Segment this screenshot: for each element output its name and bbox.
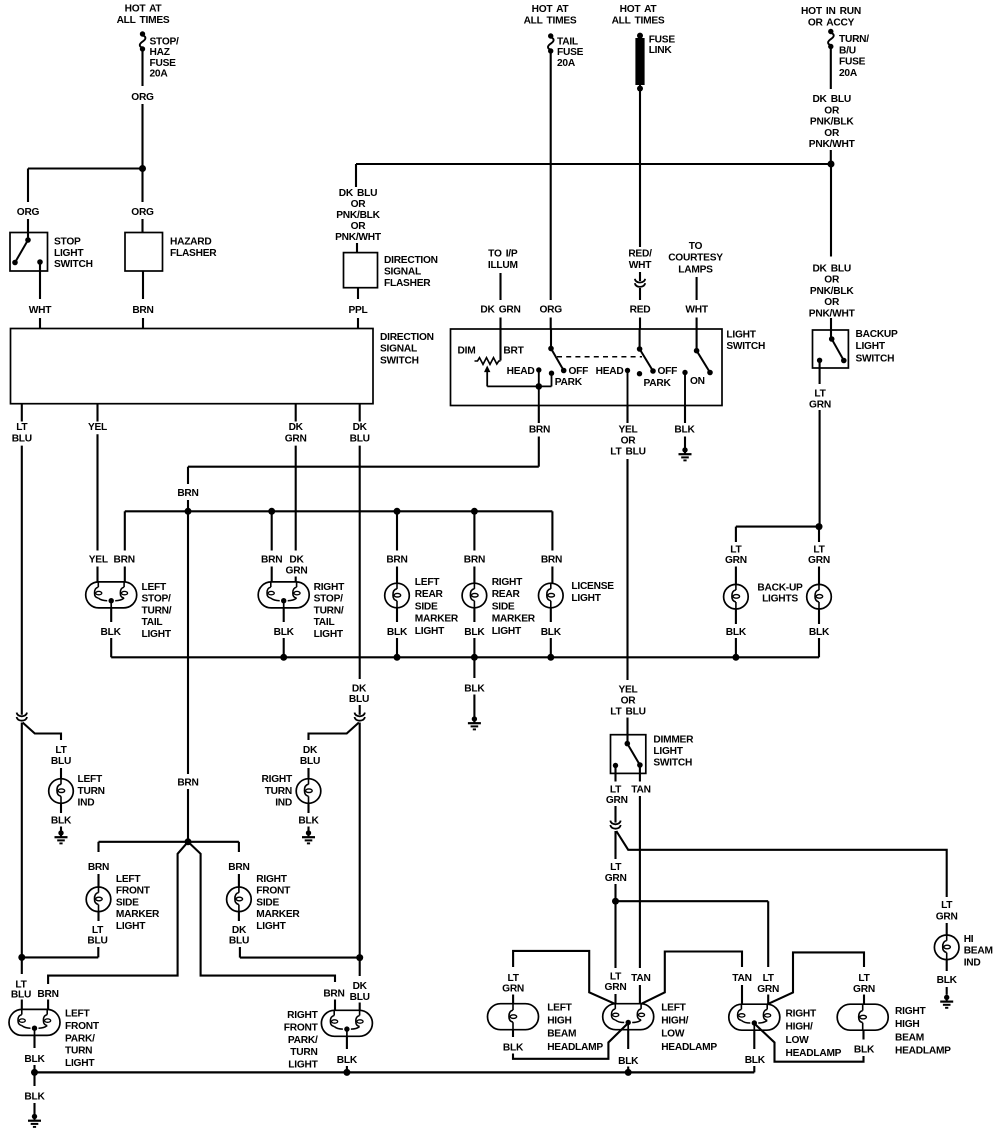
- svg-text:LIGHT: LIGHT: [256, 921, 286, 932]
- svg-text:BLU: BLU: [300, 756, 320, 767]
- svg-text:GRN: GRN: [606, 795, 628, 806]
- svg-text:LOW: LOW: [786, 1035, 810, 1046]
- svg-text:TAIL: TAIL: [314, 617, 335, 628]
- svg-text:HEADLAMP: HEADLAMP: [547, 1042, 603, 1053]
- svg-text:LT BLU: LT BLU: [610, 707, 645, 718]
- svg-text:BEAM: BEAM: [964, 946, 993, 957]
- svg-text:REAR: REAR: [415, 589, 444, 600]
- svg-text:TO: TO: [689, 241, 703, 252]
- svg-text:IND: IND: [78, 798, 95, 809]
- svg-text:LT: LT: [610, 972, 622, 983]
- svg-text:BRN: BRN: [228, 862, 249, 873]
- svg-text:ORG: ORG: [131, 92, 154, 103]
- svg-text:MARKER: MARKER: [256, 909, 300, 920]
- svg-text:BRN: BRN: [177, 778, 198, 789]
- svg-text:BLK: BLK: [937, 975, 958, 986]
- svg-text:BLU: BLU: [349, 694, 369, 705]
- svg-text:STOP/: STOP/: [142, 594, 172, 605]
- svg-text:BLK: BLK: [24, 1054, 45, 1065]
- svg-text:LIGHT: LIGHT: [116, 921, 146, 932]
- svg-text:LEFT: LEFT: [661, 1002, 686, 1013]
- svg-text:BLK: BLK: [387, 627, 408, 638]
- svg-text:OR: OR: [621, 696, 637, 707]
- svg-text:GRN: GRN: [502, 984, 524, 995]
- svg-text:DK: DK: [289, 422, 304, 433]
- svg-text:HEADLAMP: HEADLAMP: [786, 1048, 842, 1059]
- svg-text:TURN: TURN: [265, 786, 292, 797]
- svg-text:LOW: LOW: [661, 1029, 685, 1040]
- svg-text:LIGHT: LIGHT: [54, 248, 84, 259]
- svg-text:GRN: GRN: [853, 984, 875, 995]
- svg-text:FRONT: FRONT: [65, 1021, 100, 1032]
- svg-text:LT: LT: [16, 422, 28, 433]
- svg-text:PNK/BLK: PNK/BLK: [810, 117, 854, 128]
- svg-text:STOP/: STOP/: [314, 594, 344, 605]
- svg-text:GRN: GRN: [605, 982, 627, 993]
- svg-text:LIGHT: LIGHT: [856, 341, 886, 352]
- svg-text:OR: OR: [824, 297, 840, 308]
- svg-text:PARK/: PARK/: [65, 1033, 95, 1044]
- svg-text:TURN: TURN: [78, 786, 105, 797]
- svg-text:OR: OR: [824, 105, 840, 116]
- svg-text:LT: LT: [941, 900, 953, 911]
- svg-text:RIGHT: RIGHT: [314, 582, 345, 593]
- svg-text:LEFT: LEFT: [78, 774, 103, 785]
- svg-text:BLK: BLK: [809, 627, 830, 638]
- svg-text:LEFT: LEFT: [116, 874, 141, 885]
- svg-text:HEAD: HEAD: [596, 366, 624, 377]
- svg-text:ALL TIMES: ALL TIMES: [612, 16, 665, 27]
- svg-text:HEADLAMP: HEADLAMP: [895, 1046, 951, 1057]
- svg-text:BLK: BLK: [541, 627, 562, 638]
- svg-text:TAN: TAN: [732, 973, 751, 984]
- svg-text:20A: 20A: [839, 68, 858, 79]
- svg-text:LT: LT: [55, 745, 67, 756]
- svg-text:LAMPS: LAMPS: [678, 264, 713, 275]
- svg-text:DK BLU: DK BLU: [339, 188, 377, 199]
- svg-text:ILLUM: ILLUM: [488, 260, 518, 271]
- svg-text:GRN: GRN: [725, 555, 747, 566]
- svg-text:BRN: BRN: [323, 989, 344, 1000]
- svg-text:PARK/: PARK/: [288, 1035, 318, 1046]
- svg-text:YEL: YEL: [89, 555, 108, 566]
- svg-text:OR: OR: [621, 436, 637, 447]
- svg-text:B/U: B/U: [839, 45, 856, 56]
- svg-text:LT: LT: [813, 545, 825, 556]
- svg-text:GRN: GRN: [808, 555, 830, 566]
- svg-text:FRONT: FRONT: [284, 1022, 319, 1033]
- svg-text:LIGHT: LIGHT: [726, 330, 756, 341]
- svg-text:BLK: BLK: [674, 425, 695, 436]
- svg-text:DK: DK: [353, 981, 368, 992]
- svg-text:BLK: BLK: [298, 815, 319, 826]
- svg-text:FUSE: FUSE: [557, 47, 584, 58]
- svg-text:BLK: BLK: [464, 627, 485, 638]
- svg-text:SWITCH: SWITCH: [856, 353, 895, 364]
- svg-text:BRN: BRN: [541, 555, 562, 566]
- svg-text:LT: LT: [814, 389, 826, 400]
- svg-text:DK: DK: [352, 683, 367, 694]
- svg-text:BLU: BLU: [229, 936, 249, 947]
- svg-text:BLU: BLU: [350, 992, 370, 1003]
- svg-text:PARK: PARK: [644, 378, 672, 389]
- svg-text:FUSE: FUSE: [150, 58, 177, 69]
- svg-text:BEAM: BEAM: [895, 1032, 924, 1043]
- svg-text:BRN: BRN: [114, 555, 135, 566]
- svg-text:FRONT: FRONT: [116, 886, 151, 897]
- svg-text:LIGHT: LIGHT: [492, 626, 522, 637]
- svg-text:ORG: ORG: [131, 207, 154, 218]
- svg-text:LIGHT: LIGHT: [142, 629, 172, 640]
- svg-text:BLK: BLK: [745, 1055, 766, 1066]
- svg-text:GRN: GRN: [605, 873, 627, 884]
- svg-text:BRN: BRN: [386, 555, 407, 566]
- svg-text:DK GRN: DK GRN: [480, 305, 520, 316]
- svg-text:HI: HI: [964, 934, 974, 945]
- svg-text:DIRECTION: DIRECTION: [384, 255, 438, 266]
- svg-text:OR: OR: [351, 221, 367, 232]
- svg-text:BLK: BLK: [51, 815, 72, 826]
- svg-text:LEFT: LEFT: [547, 1002, 572, 1013]
- svg-text:FRONT: FRONT: [256, 886, 291, 897]
- svg-text:BACK-UP: BACK-UP: [757, 583, 803, 594]
- svg-text:ALL TIMES: ALL TIMES: [524, 16, 577, 27]
- svg-text:DIM: DIM: [458, 346, 476, 357]
- svg-text:BRN: BRN: [177, 488, 198, 499]
- svg-text:BLU: BLU: [87, 936, 107, 947]
- svg-text:SIDE: SIDE: [492, 601, 515, 612]
- svg-text:SIDE: SIDE: [415, 601, 438, 612]
- svg-text:LEFT: LEFT: [415, 577, 440, 588]
- svg-text:LT: LT: [507, 973, 519, 984]
- svg-text:YEL: YEL: [618, 425, 637, 436]
- svg-text:ON: ON: [690, 376, 705, 387]
- svg-text:DK: DK: [232, 925, 247, 936]
- svg-text:BEAM: BEAM: [547, 1029, 576, 1040]
- svg-text:BLU: BLU: [350, 433, 370, 444]
- svg-text:BRN: BRN: [529, 425, 550, 436]
- svg-text:FUSE: FUSE: [839, 57, 866, 68]
- svg-text:RED/: RED/: [628, 249, 652, 260]
- svg-text:IND: IND: [964, 957, 981, 968]
- svg-text:LEFT: LEFT: [142, 582, 167, 593]
- svg-text:FLASHER: FLASHER: [170, 248, 217, 259]
- svg-text:ORG: ORG: [17, 207, 40, 218]
- svg-text:RIGHT: RIGHT: [256, 874, 287, 885]
- svg-text:SIGNAL: SIGNAL: [380, 344, 417, 355]
- svg-text:LIGHT: LIGHT: [288, 1060, 318, 1071]
- svg-text:TAN: TAN: [631, 973, 650, 984]
- svg-text:BRN: BRN: [88, 862, 109, 873]
- svg-text:LT: LT: [610, 785, 622, 796]
- svg-text:SWITCH: SWITCH: [726, 341, 765, 352]
- svg-text:LT: LT: [763, 973, 775, 984]
- svg-text:SWITCH: SWITCH: [380, 355, 419, 366]
- svg-text:RIGHT: RIGHT: [287, 1010, 318, 1021]
- svg-text:PNK/BLK: PNK/BLK: [336, 210, 380, 221]
- svg-text:BRN: BRN: [37, 989, 58, 1000]
- svg-text:PNK/WHT: PNK/WHT: [809, 139, 856, 150]
- svg-text:TAIL: TAIL: [142, 617, 163, 628]
- svg-text:BRT: BRT: [503, 346, 524, 357]
- svg-text:LEFT: LEFT: [65, 1009, 90, 1020]
- svg-text:TO I/P: TO I/P: [488, 249, 518, 260]
- svg-text:HIGH/: HIGH/: [786, 1022, 813, 1033]
- svg-text:GRN: GRN: [936, 912, 958, 923]
- svg-text:LIGHTS: LIGHTS: [762, 594, 798, 605]
- svg-text:OR: OR: [351, 199, 367, 210]
- svg-text:LIGHT: LIGHT: [653, 746, 683, 757]
- svg-text:LT: LT: [610, 862, 622, 873]
- svg-text:HIGH: HIGH: [547, 1016, 571, 1027]
- svg-text:YEL: YEL: [618, 685, 637, 696]
- svg-text:LT: LT: [92, 925, 104, 936]
- svg-text:TURN/: TURN/: [839, 34, 869, 45]
- svg-text:HOT IN RUN: HOT IN RUN: [801, 6, 861, 17]
- svg-text:MARKER: MARKER: [116, 909, 160, 920]
- svg-text:BLK: BLK: [274, 627, 295, 638]
- svg-text:RIGHT: RIGHT: [262, 774, 293, 785]
- svg-text:BLK: BLK: [854, 1045, 875, 1056]
- svg-text:RIGHT: RIGHT: [492, 577, 523, 588]
- svg-text:BLU: BLU: [51, 756, 71, 767]
- svg-text:OFF: OFF: [658, 366, 678, 377]
- svg-text:PPL: PPL: [348, 305, 367, 316]
- svg-text:RED: RED: [630, 305, 651, 316]
- svg-text:HOT AT: HOT AT: [620, 4, 658, 15]
- svg-text:WHT: WHT: [29, 305, 52, 316]
- svg-text:DK: DK: [303, 745, 318, 756]
- svg-text:SWITCH: SWITCH: [653, 758, 692, 769]
- svg-text:BLK: BLK: [726, 627, 747, 638]
- svg-text:TURN/: TURN/: [142, 605, 172, 616]
- svg-text:STOP: STOP: [54, 237, 81, 248]
- svg-text:BLK: BLK: [618, 1056, 639, 1067]
- svg-text:DIRECTION: DIRECTION: [380, 332, 434, 343]
- svg-text:STOP/: STOP/: [150, 37, 180, 48]
- svg-text:HAZARD: HAZARD: [170, 237, 212, 248]
- svg-text:LIGHT: LIGHT: [571, 593, 601, 604]
- svg-text:TURN/: TURN/: [314, 605, 344, 616]
- svg-text:PARK: PARK: [555, 377, 583, 388]
- svg-text:LICENSE: LICENSE: [571, 581, 614, 592]
- svg-text:BLU: BLU: [11, 990, 31, 1001]
- svg-text:LINK: LINK: [649, 45, 673, 56]
- svg-text:LIGHT: LIGHT: [65, 1058, 95, 1069]
- svg-text:HOT AT: HOT AT: [532, 4, 570, 15]
- svg-text:TURN: TURN: [290, 1047, 317, 1058]
- svg-text:WHT: WHT: [629, 260, 652, 271]
- svg-text:DK: DK: [353, 422, 368, 433]
- svg-text:TAN: TAN: [631, 785, 650, 796]
- svg-text:SIGNAL: SIGNAL: [384, 267, 421, 278]
- svg-text:BLK: BLK: [503, 1042, 524, 1053]
- svg-text:SWITCH: SWITCH: [54, 259, 93, 270]
- svg-text:DK BLU: DK BLU: [812, 264, 850, 275]
- svg-text:FLASHER: FLASHER: [384, 278, 431, 289]
- svg-text:HIGH/: HIGH/: [661, 1016, 688, 1027]
- svg-text:SIDE: SIDE: [116, 897, 139, 908]
- svg-text:WHT: WHT: [685, 305, 708, 316]
- svg-text:BRN: BRN: [261, 555, 282, 566]
- svg-text:BACKUP: BACKUP: [856, 329, 899, 340]
- svg-text:GRN: GRN: [757, 984, 779, 995]
- svg-text:20A: 20A: [150, 69, 169, 80]
- svg-text:DK BLU: DK BLU: [812, 94, 850, 105]
- svg-text:OFF: OFF: [569, 366, 589, 377]
- svg-text:20A: 20A: [557, 58, 576, 69]
- svg-text:HAZ: HAZ: [150, 47, 170, 58]
- svg-text:OR: OR: [824, 275, 840, 286]
- svg-text:RIGHT: RIGHT: [895, 1006, 926, 1017]
- svg-text:PNK/WHT: PNK/WHT: [335, 232, 382, 243]
- svg-text:SIDE: SIDE: [256, 897, 279, 908]
- svg-text:LT: LT: [858, 973, 870, 984]
- svg-text:RIGHT: RIGHT: [786, 1009, 817, 1020]
- svg-text:BRN: BRN: [464, 555, 485, 566]
- svg-text:DK: DK: [289, 555, 304, 566]
- svg-text:OR: OR: [824, 128, 840, 139]
- svg-text:LT: LT: [730, 545, 742, 556]
- svg-text:PNK/WHT: PNK/WHT: [809, 308, 856, 319]
- svg-text:DIMMER: DIMMER: [653, 734, 694, 745]
- svg-text:LT BLU: LT BLU: [610, 447, 645, 458]
- svg-text:HEADLAMP: HEADLAMP: [661, 1042, 717, 1053]
- svg-text:MARKER: MARKER: [492, 614, 536, 625]
- svg-text:FUSE: FUSE: [649, 35, 676, 46]
- svg-text:HOT AT: HOT AT: [125, 4, 163, 15]
- svg-text:ORG: ORG: [539, 305, 562, 316]
- svg-text:MARKER: MARKER: [415, 614, 459, 625]
- svg-text:PNK/BLK: PNK/BLK: [810, 286, 854, 297]
- svg-text:BLK: BLK: [337, 1055, 358, 1066]
- svg-text:BRN: BRN: [132, 305, 153, 316]
- svg-text:TURN: TURN: [65, 1046, 92, 1057]
- svg-text:OR ACCY: OR ACCY: [808, 18, 855, 29]
- svg-text:TAIL: TAIL: [557, 37, 578, 48]
- svg-text:HEAD: HEAD: [507, 366, 535, 377]
- svg-text:LIGHT: LIGHT: [314, 629, 344, 640]
- svg-text:COURTESY: COURTESY: [668, 253, 723, 264]
- svg-text:BLK: BLK: [464, 683, 485, 694]
- svg-text:IND: IND: [275, 798, 292, 809]
- svg-text:BLU: BLU: [12, 433, 32, 444]
- svg-text:YEL: YEL: [88, 422, 107, 433]
- svg-text:BLK: BLK: [24, 1092, 45, 1103]
- svg-text:GRN: GRN: [285, 433, 307, 444]
- svg-text:GRN: GRN: [286, 566, 308, 577]
- svg-text:BLK: BLK: [101, 627, 122, 638]
- svg-text:LIGHT: LIGHT: [415, 626, 445, 637]
- svg-text:HIGH: HIGH: [895, 1019, 919, 1030]
- svg-text:REAR: REAR: [492, 589, 521, 600]
- svg-text:ALL TIMES: ALL TIMES: [117, 15, 170, 26]
- svg-text:GRN: GRN: [809, 400, 831, 411]
